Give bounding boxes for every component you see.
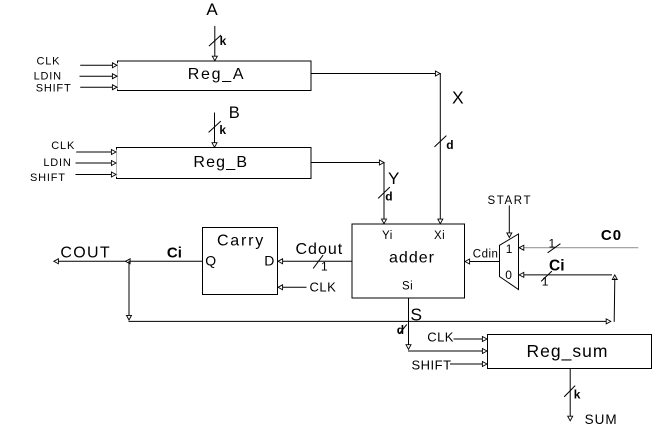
wire Cdin from mux to adder (465, 259, 500, 264)
bus-width slash k on A (209, 34, 226, 48)
bus-width slash d on S (397, 323, 407, 337)
svg-text:SHIFT: SHIFT (30, 172, 66, 184)
svg-text:CLK: CLK (37, 56, 61, 68)
wire COUT from Carry Q output (54, 259, 203, 264)
pin SHIFT of Reg_sum (412, 358, 488, 373)
wire Ci feedback horizontal bottom (129, 319, 611, 324)
wire Y from Reg_B to adder (311, 160, 387, 224)
svg-text:SUM: SUM (585, 412, 618, 427)
wire SUM output bus (568, 369, 573, 421)
svg-text:Cdin: Cdin (473, 249, 499, 261)
svg-text:d: d (446, 138, 453, 152)
svg-text:k: k (219, 123, 226, 137)
multiplexer U1 (500, 234, 519, 290)
wire C0 to mux input 1 (519, 245, 638, 250)
svg-text:SHIFT: SHIFT (36, 82, 72, 94)
adder block (352, 224, 465, 298)
pin CLK of Reg_A (37, 56, 118, 68)
wire B input bus (212, 113, 217, 147)
svg-text:k: k (574, 387, 581, 401)
bus-width slash 1 on Ci wire (542, 272, 552, 289)
svg-text:Q: Q (205, 253, 216, 269)
svg-text:Y: Y (388, 169, 399, 188)
svg-text:d: d (397, 323, 404, 337)
svg-text:COUT: COUT (60, 245, 111, 262)
bus-width slash k on B (209, 122, 226, 137)
svg-text:S: S (410, 305, 422, 325)
pin SHIFT of Reg_B (30, 172, 116, 184)
wire Ci feedback down from junction (127, 261, 132, 320)
wire Ci feedback vertical right (613, 279, 616, 322)
svg-text:k: k (220, 34, 227, 48)
pin SHIFT of Reg_A (36, 82, 117, 94)
svg-text:LDIN: LDIN (43, 157, 71, 169)
bus-width slash 1 on Cdout (314, 256, 329, 274)
svg-text:CLK: CLK (51, 140, 75, 152)
svg-text:1: 1 (321, 260, 328, 274)
svg-text:d: d (385, 190, 392, 204)
svg-text:Cdout: Cdout (296, 241, 344, 258)
bus-width slash k on SUM (565, 386, 581, 401)
pin CLK of Reg_B (51, 140, 116, 155)
pin CLK of Reg_sum (427, 329, 487, 344)
svg-text:Xi: Xi (434, 230, 445, 242)
svg-text:CLK: CLK (310, 279, 337, 294)
svg-text:Ci: Ci (549, 257, 565, 274)
svg-text:Reg_A: Reg_A (188, 66, 245, 83)
svg-text:C0: C0 (601, 227, 622, 244)
svg-text:Yi: Yi (382, 230, 393, 242)
svg-text:1: 1 (542, 275, 549, 289)
svg-text:B: B (229, 104, 240, 122)
register Reg_sum (488, 335, 652, 369)
svg-text:A: A (206, 0, 218, 19)
svg-text:1: 1 (506, 242, 513, 256)
D flip-flop Carry (203, 228, 278, 295)
svg-text:D: D (264, 253, 274, 269)
svg-text:START: START (488, 195, 533, 207)
svg-text:LDIN: LDIN (34, 71, 62, 83)
wire A input bus (212, 27, 217, 61)
wire S from adder Si output (406, 298, 411, 349)
register Reg_A (118, 61, 312, 91)
svg-text:CLK: CLK (427, 329, 454, 344)
bus-width slash 1 on C0 wire (548, 236, 560, 252)
svg-text:Si: Si (402, 281, 413, 293)
svg-text:1: 1 (549, 236, 556, 250)
pin CLK of Carry (278, 279, 336, 294)
pin LDIN of Reg_B (43, 157, 116, 169)
pin LDIN of Reg_A (34, 71, 117, 83)
svg-text:0: 0 (505, 268, 512, 282)
wire S into Reg_sum (409, 349, 488, 354)
bus-width slash d on X (435, 136, 454, 152)
svg-text:Reg_B: Reg_B (193, 154, 248, 171)
wire Ci to mux input 0 (519, 272, 617, 279)
svg-text:SHIFT: SHIFT (412, 358, 452, 373)
svg-text:adder: adder (389, 249, 435, 266)
svg-text:Ci: Ci (167, 244, 182, 261)
bus-width slash d on Y (379, 188, 393, 204)
svg-text:Carry: Carry (217, 232, 265, 249)
junction on Ci wire (126, 259, 131, 264)
wire Cdout from adder to Carry D input (278, 259, 352, 264)
register Reg_B (117, 148, 312, 179)
svg-text:Reg_sum: Reg_sum (527, 341, 609, 362)
pin START select of mux (488, 195, 533, 238)
svg-text:X: X (452, 88, 464, 108)
wire X from Reg_A to adder (311, 71, 443, 224)
